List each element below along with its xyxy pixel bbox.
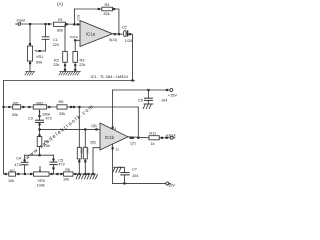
ground C7 [113,167,123,172]
svg-text:473: 473 [14,163,20,167]
resistor R12 [83,147,89,159]
resistor R2 22k [53,52,67,68]
potentiometer VR2 100k [33,101,50,120]
svg-text:R2: R2 [54,59,59,63]
wire module B top bus [4,80,135,82]
svg-text:10(12): 10(12) [70,35,79,39]
svg-text:82k: 82k [104,12,110,16]
wire R11 to output terminal [159,137,170,139]
svg-text:104: 104 [161,99,167,103]
wire input row y=24 [21,23,52,25]
ground C6 [143,104,153,109]
svg-text:C7: C7 [132,167,137,171]
resistor R3 22k [73,52,86,68]
svg-text:100k: 100k [37,184,45,188]
svg-text:224: 224 [53,43,59,47]
wire IC1b +input to grounded row [93,148,100,174]
resistor R9 10k [37,129,50,148]
wire R3 bottom [74,62,76,71]
wire bottom row y=174.6 [4,173,96,175]
svg-text:82k: 82k [57,29,63,33]
wire pin 11 to -15V rail [112,144,114,183]
svg-text:473: 473 [58,163,64,167]
resistor R1 82k [54,18,66,33]
svg-text:R8: R8 [59,100,64,104]
svg-text:R4: R4 [105,3,110,7]
svg-text:50k: 50k [36,61,42,65]
resistor R4 82k feedback [102,3,113,16]
svg-text:8(14): 8(14) [110,38,117,42]
svg-text:11: 11 [116,148,120,152]
-15V terminal [166,182,176,187]
wire VR1 bottom [29,61,31,71]
wire module B left bus [3,81,5,175]
svg-text:1/25: 1/25 [125,39,132,43]
wire R4 right to output node [113,9,119,34]
svg-text:IC1b: IC1b [105,135,115,140]
wire R1 to op-amp [66,23,81,25]
wire R4 left to inverting input [74,9,101,24]
node R4 feedback junction [73,23,75,25]
capacitor C6 104 [138,90,167,104]
svg-text:+15V: +15V [168,93,178,98]
wire main row y=107 [4,106,139,108]
node R2 junction [66,23,68,25]
svg-text:9(13): 9(13) [77,15,80,21]
svg-text:VR2: VR2 [36,101,43,105]
svg-text:104: 104 [132,174,138,178]
svg-text:22k: 22k [79,63,85,67]
svg-text:33k: 33k [12,113,18,117]
wire R10 top from row [78,107,80,147]
ground hatching on bottom row [76,174,97,179]
capacitor C3 472 [28,115,52,129]
svg-text:VR3: VR3 [38,179,45,183]
svg-text:2(6): 2(6) [91,124,97,128]
svg-text:R3: R3 [80,59,85,63]
resistor R8 33k [57,100,67,116]
op-amp U2 IC1b [100,123,128,150]
capacitor C1 224 [42,24,59,51]
potentiometer VR3 100k [34,166,50,187]
wire R2 top [64,24,66,52]
+15V terminal [168,89,178,98]
wire output row [128,137,149,138]
svg-text:C1: C1 [53,38,58,42]
svg-text:R11: R11 [149,132,156,136]
svg-text:VR1: VR1 [36,55,43,59]
svg-text:R7: R7 [10,169,15,173]
output terminal [166,133,176,139]
wire feedback column to output [137,107,139,138]
svg-text:C4: C4 [16,157,21,161]
svg-text:R12: R12 [86,149,90,155]
resistor R6 10k [63,168,73,181]
wire R3 top [74,40,76,51]
svg-text:R5: R5 [13,101,18,105]
svg-text:C3: C3 [28,117,33,121]
capacitor C4 473 [14,155,28,174]
svg-text:(A): (A) [57,1,64,6]
svg-text:3(5): 3(5) [90,141,96,145]
resistor R10 [77,147,83,159]
svg-text:4: 4 [115,127,117,131]
resistor R5 33k [12,101,21,117]
svg-text:10k: 10k [8,179,14,183]
input terminal [16,17,27,25]
capacitor C2 1/25 [122,25,132,43]
svg-text:10k: 10k [63,178,69,182]
potentiometer VR1 50k [27,46,45,65]
wire R12 top from inverting row [84,129,86,147]
wire op-amp output row [113,33,123,35]
svg-text:33k: 33k [59,112,65,116]
wire op-amp +input [75,39,80,41]
wire inverting row y=129.4 [40,128,101,130]
svg-text:IC1a: IC1a [86,32,96,37]
wire R10 R12 bottoms [78,159,80,174]
svg-text:R1: R1 [58,18,63,22]
wire R9 bottom node [39,147,41,156]
ground VR1 [25,71,35,75]
wire -15V rail [113,182,166,184]
svg-text:C2: C2 [122,25,127,29]
svg-text:22k: 22k [53,63,59,67]
node C1 junction [44,23,46,25]
svg-text:1k: 1k [151,142,155,146]
node input/VR1 junction [29,23,31,25]
svg-text:input: input [17,17,27,22]
capacitor C7 104 [118,167,138,183]
ground R2 R3 [59,71,81,75]
svg-text:-15V: -15V [167,182,176,187]
wire VR1 top [29,24,31,46]
wire C2 output down to module B [128,34,132,80]
wire R2 bottom [64,62,66,71]
svg-text:R6: R6 [65,168,70,172]
op-amp U1 IC1a [80,21,113,47]
svg-text:C6: C6 [138,99,143,103]
wire pin 4 to +15V rail [112,90,114,129]
capacitor C5 473 [50,155,65,174]
resistor R11 1k [149,132,159,147]
wire +15V rail [113,89,170,91]
svg-text:IC1 : TL 084 / LM324: IC1 : TL 084 / LM324 [91,74,129,79]
svg-text:1(7): 1(7) [130,141,136,145]
wire C4/C5 node row [25,154,54,156]
resistor R7 10k [8,169,16,183]
svg-text:472: 472 [46,117,52,121]
